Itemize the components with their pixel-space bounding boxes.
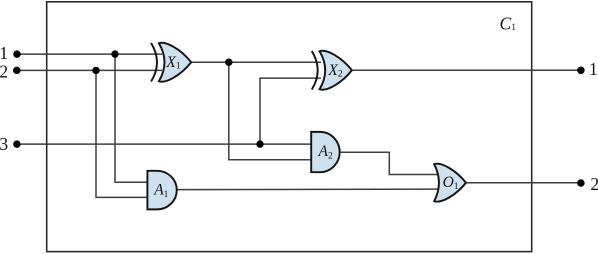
and gate A1 [147,171,176,210]
wire from node on X1 output down to A2 lower input [229,62,312,160]
junction node on X1 output [225,59,232,66]
input terminal 3 [13,140,21,148]
and gate A2 [311,132,340,172]
svg-text:2: 2 [0,61,8,81]
wire input 2 [17,69,162,71]
svg-text:1: 1 [0,43,8,63]
wire input 3 [17,143,312,145]
junction node on input 2 [92,67,99,74]
wire A2 output to O1 upper input [340,152,440,174]
wire X1 output to X2 upper input [191,61,321,63]
output terminal 1 [577,67,585,75]
input terminal 1 [13,50,21,58]
output terminal 2 [577,179,585,187]
wire A1 output to O1 lower input [177,188,440,191]
or gate O1 [434,164,466,202]
xor gate X2 [312,51,352,90]
junction node on input 1 [111,50,118,57]
wire O1 output to output terminal 2 [466,182,581,184]
svg-text:3: 3 [0,134,8,154]
wire from node on input1 down to A1 upper input [115,54,149,182]
input terminal 2 [13,67,21,75]
xor gate X1 [151,43,191,82]
wire from node on input3 up to X2 lower input [260,78,321,144]
wire from node on input2 down to A1 lower input [96,70,149,197]
wire input 1 [17,53,162,55]
junction node on input 3 [256,140,263,147]
svg-text:1: 1 [589,59,598,79]
svg-text:2: 2 [590,174,598,194]
svg-text:C1: C1 [500,13,517,33]
wire X2 output to output terminal 1 [352,69,581,71]
circuit box C1 [47,2,532,252]
